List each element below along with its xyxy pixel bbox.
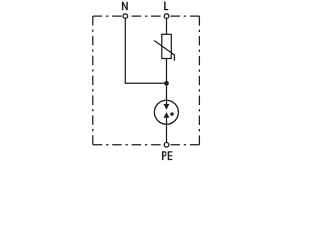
gas dot xyxy=(170,112,173,115)
terminal PE xyxy=(164,143,169,148)
enclosure dash-dot border left xyxy=(92,16,94,145)
label L xyxy=(164,2,168,11)
arrow up head xyxy=(164,112,170,118)
arrow down head xyxy=(164,104,170,110)
label N xyxy=(122,2,128,11)
wire L terminal to varistor top xyxy=(166,16,168,34)
wire N branch down and right to junction xyxy=(125,16,166,83)
enclosure dash-dot border right xyxy=(198,16,200,145)
junction node xyxy=(164,81,169,86)
wire spark-gap bottom to PE terminal xyxy=(166,124,168,145)
terminal L xyxy=(164,14,169,19)
arrow up shaft xyxy=(166,117,168,124)
arrow down shaft xyxy=(166,100,168,104)
varistor (rectangle with diagonal stroke and tail) xyxy=(154,34,174,61)
spark gap (circle with opposing arrows and gas dot) xyxy=(154,100,178,124)
label PE xyxy=(162,151,166,160)
enclosure dash-dot border top xyxy=(93,15,200,17)
wire varistor bottom to spark-gap top xyxy=(166,59,168,101)
terminal N xyxy=(123,14,128,19)
enclosure dash-dot border bottom xyxy=(93,144,200,146)
